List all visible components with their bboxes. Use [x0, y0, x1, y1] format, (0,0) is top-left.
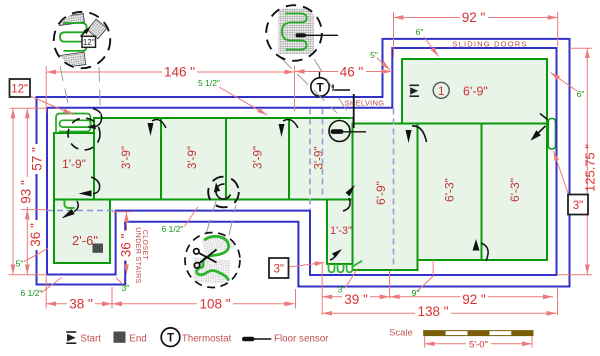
dim text 46 — [338, 66, 366, 79]
svg-text:9": 9" — [412, 288, 420, 298]
svg-text:Start: Start — [80, 333, 101, 344]
sensor bar — [296, 33, 307, 37]
dim line 93 — [12, 108, 14, 274]
svg-text:T: T — [167, 333, 174, 345]
svg-text:2'-6": 2'-6" — [72, 233, 98, 248]
leader 6 green right — [551, 73, 578, 92]
cable cold lead diagonal — [353, 261, 363, 267]
svg-text:UNDER STAIRS: UNDER STAIRS — [134, 227, 141, 283]
legend start symbol — [66, 332, 76, 343]
dim ext x294.5 top — [294, 66, 296, 111]
dim text 108 — [197, 297, 233, 310]
dim ext x402.6 top — [393, 12, 395, 57]
detail circle 2 — [266, 5, 338, 61]
scale dimension — [425, 336, 532, 348]
svg-text:46 ": 46 " — [340, 65, 364, 80]
svg-text:6 1/2": 6 1/2" — [21, 288, 43, 298]
svg-text:125.75 ": 125.75 " — [583, 144, 598, 192]
svg-text:1: 1 — [438, 84, 445, 98]
dim text 138 — [415, 306, 451, 318]
arrow 12 inch spacing — [81, 32, 86, 37]
thermostat wall tick — [319, 72, 321, 78]
dim line 125.75 — [586, 48, 588, 274]
curved arrow at x418 — [412, 126, 427, 142]
thermostat symbol — [311, 78, 329, 96]
dim text 36 closet rotated — [118, 231, 133, 261]
dim tick left top — [10, 107, 47, 109]
room1 start symbol — [410, 85, 420, 96]
svg-text:3": 3" — [573, 200, 583, 212]
svg-text:6'-3": 6'-3" — [508, 178, 522, 202]
svg-text:5": 5" — [16, 259, 24, 269]
leader 5 1/2 — [219, 87, 267, 115]
dim ext x557.7 top — [557, 12, 559, 46]
detail circle 1 — [54, 12, 110, 69]
mat divider x161 — [160, 118, 162, 200]
leader 5 green — [377, 58, 390, 70]
detail circle 3 leaders — [206, 201, 216, 234]
dim ext x46 top — [45, 66, 47, 113]
svg-text:138 ": 138 " — [417, 304, 448, 319]
leader 9 green — [418, 276, 434, 291]
dashed circle at mat2/3 bottom — [208, 177, 239, 208]
svg-text:108 ": 108 " — [199, 296, 230, 311]
dim line 146 — [46, 71, 294, 73]
dim text 39 — [342, 294, 370, 306]
svg-text:12": 12" — [11, 84, 28, 96]
dim line 38 — [46, 303, 112, 305]
dim line 92 top — [394, 17, 558, 19]
svg-text:57 ": 57 " — [30, 147, 45, 171]
dim ext x46 bottom — [45, 276, 47, 309]
scissors — [194, 249, 217, 268]
dim line 57 — [26, 108, 28, 209]
svg-text:3'-9": 3'-9" — [314, 147, 326, 170]
svg-text:Scale: Scale — [389, 328, 413, 339]
svg-text:5": 5" — [370, 50, 378, 60]
svg-text:146 ": 146 " — [164, 65, 195, 80]
boxed label 3 right — [568, 195, 588, 215]
hatch band top — [57, 14, 84, 26]
end marker in closet mat — [93, 244, 104, 253]
boxed label 12 left — [10, 79, 31, 97]
svg-text:Thermostat: Thermostat — [182, 333, 232, 344]
hatch diamond right — [87, 19, 107, 39]
leader 6 1/2 mid — [185, 207, 199, 227]
svg-text:1'-3": 1'-3" — [330, 225, 352, 237]
svg-text:3": 3" — [338, 285, 346, 295]
dim text 92 bottom — [460, 294, 488, 306]
heating mat 1'-9" room left — [54, 133, 94, 200]
svg-text:6'-9": 6'-9" — [374, 181, 388, 205]
curved arrow at x481 bottom — [481, 243, 488, 261]
svg-text:6'-3": 6'-3" — [443, 178, 457, 202]
leader 5 left — [24, 249, 48, 262]
legend thermostat symbol — [161, 328, 180, 347]
svg-text:93 ": 93 " — [18, 180, 33, 204]
hidden line x322.5 — [322, 109, 324, 200]
leader 6 1/2 left — [41, 278, 62, 294]
scale bar — [424, 331, 533, 336]
leader 6 green top — [424, 37, 439, 57]
svg-text:Floor sensor: Floor sensor — [274, 333, 329, 344]
svg-text:39 ": 39 " — [344, 292, 368, 307]
svg-text:36 ": 36 " — [28, 223, 43, 247]
heating mat 2'-6" closet — [54, 200, 110, 264]
floor sensor tip — [331, 129, 344, 134]
dim tick left bottom — [9, 274, 48, 276]
dim tick closet top — [112, 211, 131, 213]
dashed circle at serpentine start — [68, 118, 100, 150]
serpentine cable — [197, 236, 230, 282]
arrow room1 to connector — [538, 126, 546, 134]
svg-text:6'-9": 6'-9" — [463, 85, 488, 99]
curved arrow 1'-3" to 6'-9" — [343, 198, 350, 211]
dim line 39 — [322, 296, 389, 298]
dim line 92 bottom — [390, 296, 553, 298]
svg-text:12": 12" — [83, 38, 95, 47]
detail circle 3 — [185, 232, 240, 287]
hatch band bottom — [57, 52, 86, 68]
dim text 57 rotated — [30, 144, 45, 174]
svg-text:36 ": 36 " — [118, 234, 133, 258]
room1 circled 1 — [433, 82, 449, 98]
curved arrow bottom of 1'-3" — [330, 254, 335, 260]
svg-text:6": 6" — [416, 27, 424, 37]
curved arrow bottom 1'-9" — [91, 177, 100, 194]
svg-text:5'-0": 5'-0" — [469, 339, 488, 350]
hidden line x310 — [309, 109, 311, 211]
cable end loops below 1'-3" mat — [329, 264, 353, 272]
dim text 125.75 rotated — [583, 144, 598, 192]
leader 3 box left — [289, 263, 325, 268]
svg-text:92 ": 92 " — [462, 292, 486, 307]
svg-text:6": 6" — [577, 89, 585, 99]
cable serpentine start top-left — [56, 114, 91, 134]
dim text 36 left rotated — [28, 220, 43, 250]
svg-text:3": 3" — [273, 264, 283, 276]
mat divider x226 — [225, 118, 227, 200]
wall inner outline — [47, 48, 557, 275]
leader 3 green — [346, 269, 358, 288]
dim line 108 — [112, 303, 295, 305]
heating mat 6'-3" second — [482, 124, 548, 261]
svg-text:SLIDING DOORS: SLIDING DOORS — [452, 40, 527, 49]
curved arrow at x161 — [152, 120, 166, 128]
svg-text:6 1/2": 6 1/2" — [162, 224, 184, 234]
dim text 93 rotated — [18, 177, 33, 207]
dim ext x295 bottom — [295, 289, 297, 309]
mat divider x289 — [288, 118, 290, 200]
dim ext x389.6 bottom — [389, 271, 391, 299]
legend end symbol — [114, 332, 126, 343]
serpentine cable — [60, 23, 87, 51]
arrow inside small circle — [216, 184, 230, 199]
dim ext x112 bottom — [111, 287, 113, 309]
svg-text:3'-9": 3'-9" — [187, 146, 199, 169]
dim ext x322 bottom — [321, 263, 323, 315]
boxed label 12 in circle — [82, 36, 96, 47]
arrow into closet mat — [74, 201, 78, 212]
detail circle 2 leaders — [281, 58, 337, 113]
cable drop into closet mat — [65, 200, 75, 209]
dim line 46 — [295, 71, 393, 73]
dim line 138 — [322, 312, 556, 314]
wall outer outline — [37, 39, 570, 287]
svg-text:92 ": 92 " — [462, 10, 486, 25]
svg-text:3": 3" — [122, 283, 130, 293]
heating mat 6'-3" first — [418, 124, 482, 261]
dim line 36 left — [26, 210, 28, 275]
curved arrow at x289 — [283, 120, 298, 128]
heating mat room 1 (6'-9") — [402, 59, 547, 124]
sensor lead line — [306, 34, 338, 36]
dim tick left mid — [21, 209, 47, 211]
room1 cable connector — [548, 119, 555, 150]
svg-text:CLOSET: CLOSET — [141, 230, 148, 261]
hatch patch lower — [192, 258, 231, 285]
heating mat 1'-3" — [327, 200, 353, 265]
svg-text:T: T — [316, 81, 324, 95]
svg-text:5 1/2": 5 1/2" — [198, 78, 220, 88]
svg-text:3'-9": 3'-9" — [121, 146, 133, 169]
heating mat 6'-9" — [353, 124, 418, 271]
svg-text:3'-9": 3'-9" — [253, 146, 265, 169]
heating mat block 3'-9" x4 — [94, 118, 354, 200]
dim text 92 top — [460, 11, 488, 24]
dim ext y275 right — [558, 274, 592, 276]
floor sensor circle — [329, 121, 350, 142]
dim line 36 closet — [126, 212, 128, 274]
leader 3 box right — [554, 151, 570, 196]
leader 12 inch box — [30, 96, 73, 115]
thermostat wire — [333, 85, 350, 91]
boxed label 3 left — [269, 258, 289, 278]
svg-text:1'-9": 1'-9" — [62, 157, 86, 171]
svg-text:38 ": 38 " — [69, 296, 93, 311]
dim text 38 — [67, 297, 95, 310]
hatch patch upper — [202, 232, 237, 254]
svg-text:SHELVING: SHELVING — [345, 98, 385, 107]
svg-text:End: End — [129, 333, 146, 344]
legend floor sensor symbol — [242, 337, 255, 342]
dim ext y48 right — [570, 47, 593, 49]
dim ext x554 bottom — [557, 288, 559, 315]
detail circle 1 leaders — [60, 58, 352, 235]
curved arrow at serpentine start — [92, 109, 102, 127]
leader 3 closet — [116, 278, 123, 285]
hidden line x393.5 — [393, 109, 395, 271]
hidden line under stairs (closet) — [47, 210, 116, 212]
serpentine cable — [282, 14, 307, 50]
